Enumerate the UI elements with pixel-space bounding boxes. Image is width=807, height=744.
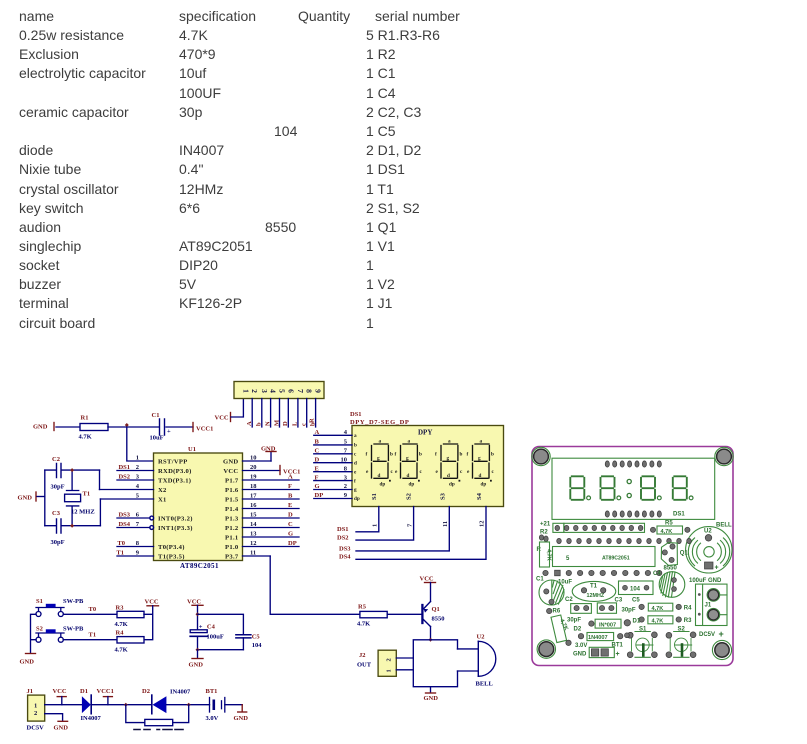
capacitor C2 bbox=[45, 456, 100, 491]
wire bell stubs bbox=[458, 649, 479, 671]
svg-text:C2: C2 bbox=[565, 597, 573, 603]
node labels A-DP (U1 right) bbox=[288, 474, 297, 548]
svg-text:2: 2 bbox=[344, 483, 347, 490]
svg-text:R3: R3 bbox=[116, 605, 125, 612]
svg-text:J1: J1 bbox=[27, 688, 34, 695]
svg-text:8550: 8550 bbox=[432, 615, 445, 622]
capacitor C5 104 pcb bbox=[619, 581, 654, 595]
resistor R3 bbox=[115, 605, 145, 629]
pad row below chip bbox=[555, 570, 662, 576]
svg-text:DS4: DS4 bbox=[118, 521, 130, 528]
svg-text:U1: U1 bbox=[188, 446, 196, 453]
svg-text:8: 8 bbox=[305, 389, 314, 393]
svg-text:P1.0: P1.0 bbox=[225, 544, 239, 551]
svg-text:S1: S1 bbox=[36, 598, 43, 605]
svg-text:dp: dp bbox=[354, 496, 360, 502]
svg-text:104: 104 bbox=[630, 587, 641, 593]
wire S1 to R3 bbox=[63, 613, 117, 615]
capacitor C4 bbox=[190, 624, 224, 650]
svg-text:C3: C3 bbox=[615, 598, 623, 604]
svg-text:2: 2 bbox=[34, 710, 37, 717]
svg-text:3.0V: 3.0V bbox=[575, 643, 587, 649]
svg-text:4: 4 bbox=[269, 389, 278, 393]
svg-text:DS1: DS1 bbox=[337, 526, 349, 533]
svg-text:IN4007: IN4007 bbox=[170, 689, 191, 696]
DPY left pin wires bbox=[314, 435, 352, 498]
svg-text:+: + bbox=[167, 428, 171, 435]
svg-text:D2: D2 bbox=[142, 688, 150, 695]
wire bell loop bbox=[413, 640, 457, 687]
resistor R5 bbox=[357, 604, 387, 628]
svg-text:OUT: OUT bbox=[357, 662, 372, 669]
node junction bypass right bbox=[187, 703, 191, 707]
svg-text:f: f bbox=[435, 452, 437, 458]
wire BT1 to GND bbox=[225, 704, 242, 706]
header silk + pads bbox=[553, 523, 645, 532]
svg-text:D1: D1 bbox=[633, 619, 641, 625]
svg-text:g: g bbox=[447, 455, 450, 461]
mounting hole TR bbox=[715, 447, 733, 465]
svg-text:7: 7 bbox=[296, 389, 305, 393]
svg-text:d: d bbox=[447, 473, 450, 479]
svg-text:VCC: VCC bbox=[53, 688, 67, 695]
wire D2 to BT1 bbox=[166, 704, 209, 706]
mounting hole TL bbox=[532, 447, 550, 465]
svg-text:GND: GND bbox=[223, 458, 239, 465]
svg-text:T0(P3.4): T0(P3.4) bbox=[158, 544, 185, 551]
svg-text:+: + bbox=[715, 565, 719, 572]
svg-text:D: D bbox=[315, 456, 320, 463]
DPY bottom pin numbers bbox=[372, 521, 486, 528]
singlechip AT89C2051 pcb bbox=[553, 547, 656, 567]
node junction RST bbox=[125, 423, 129, 427]
svg-text:12MHZ: 12MHZ bbox=[587, 593, 605, 599]
svg-text:GND: GND bbox=[424, 695, 439, 702]
parts list table bbox=[19, 8, 54, 24]
svg-text:T1: T1 bbox=[590, 584, 598, 590]
diode D2 pcb bbox=[574, 627, 633, 642]
svg-text:F: F bbox=[288, 483, 292, 490]
svg-text:T0: T0 bbox=[117, 540, 125, 547]
svg-text:S2: S2 bbox=[406, 493, 413, 500]
svg-text:6: 6 bbox=[286, 389, 295, 393]
capacitor C1 pcb bbox=[536, 577, 572, 606]
svg-text:10: 10 bbox=[341, 456, 348, 463]
colon bbox=[627, 479, 631, 483]
DPY left pin numbers bbox=[341, 429, 348, 499]
svg-text:A: A bbox=[315, 429, 320, 436]
svg-text:P1.2: P1.2 bbox=[225, 525, 239, 532]
svg-text:4.7K: 4.7K bbox=[115, 621, 128, 628]
display pad row top bbox=[605, 461, 661, 467]
svg-text:P1.7: P1.7 bbox=[225, 477, 239, 484]
transistor Q1 pcb bbox=[661, 543, 688, 566]
svg-text:GND: GND bbox=[189, 662, 204, 669]
svg-text:15: 15 bbox=[250, 512, 257, 519]
svg-text:DS1: DS1 bbox=[350, 411, 362, 418]
capacitor C5 bbox=[236, 633, 262, 649]
svg-text:5: 5 bbox=[566, 556, 570, 562]
svg-text:VCC: VCC bbox=[215, 415, 229, 422]
wire switches left to GND bbox=[31, 614, 37, 653]
svg-text:2: 2 bbox=[386, 658, 393, 661]
svg-text:DS4: DS4 bbox=[339, 554, 351, 561]
svg-text:13: 13 bbox=[250, 531, 257, 538]
svg-text:A: A bbox=[288, 474, 293, 481]
svg-text:dp: dp bbox=[481, 482, 487, 488]
svg-text:d: d bbox=[479, 473, 482, 479]
svg-text:Q1: Q1 bbox=[680, 551, 689, 557]
svg-text:f: f bbox=[354, 478, 356, 484]
U1 left pin numbers bbox=[136, 455, 140, 557]
svg-text:R4: R4 bbox=[116, 630, 125, 637]
node labels A-DP (DPY left) bbox=[315, 429, 324, 499]
diode D1 pcb bbox=[589, 619, 641, 629]
svg-text:G: G bbox=[288, 531, 293, 538]
pad row 2 bbox=[557, 538, 692, 543]
node junction C4 bottom bbox=[196, 648, 200, 652]
svg-text:b: b bbox=[419, 452, 422, 458]
svg-text:9: 9 bbox=[314, 389, 323, 393]
svg-text:M: M bbox=[273, 420, 280, 426]
svg-text:L: L bbox=[292, 421, 299, 426]
svg-text:P1.3: P1.3 bbox=[225, 515, 239, 522]
mounting hole BL bbox=[537, 640, 555, 658]
svg-text:R: R bbox=[309, 418, 316, 423]
label DC5V bbox=[699, 629, 724, 639]
svg-text:X1: X1 bbox=[158, 496, 167, 503]
svg-text:10uF: 10uF bbox=[150, 435, 164, 442]
diode D2 IN4007 bbox=[142, 688, 191, 714]
capacitor C3 bbox=[45, 510, 101, 546]
svg-text:DC5V: DC5V bbox=[699, 632, 715, 638]
wire S2 to R4 bbox=[63, 639, 117, 641]
svg-text:a: a bbox=[448, 439, 451, 445]
svg-text:X2: X2 bbox=[158, 487, 167, 494]
pcb seven-segment digits bbox=[570, 476, 693, 500]
node labels DS1-DS4 T0 T1 (U1 left) bbox=[116, 464, 130, 557]
svg-text:+: + bbox=[616, 651, 620, 658]
svg-text:C5: C5 bbox=[632, 598, 640, 604]
resistor R5 pcb bbox=[650, 521, 690, 536]
svg-text:C: C bbox=[315, 448, 320, 455]
ground (bell) bbox=[424, 687, 439, 702]
display window DS1 bbox=[552, 458, 715, 519]
svg-text:DS1: DS1 bbox=[673, 512, 685, 518]
svg-text:B: B bbox=[315, 439, 320, 446]
svg-text:U2: U2 bbox=[704, 529, 712, 535]
svg-text:a: a bbox=[408, 439, 411, 445]
svg-text:VCC: VCC bbox=[420, 576, 434, 583]
svg-text:1: 1 bbox=[386, 669, 393, 672]
svg-text:S3: S3 bbox=[439, 492, 446, 500]
svg-text:C: C bbox=[288, 521, 293, 528]
svg-text:DS3: DS3 bbox=[339, 546, 351, 553]
node junction bypass left bbox=[124, 703, 128, 707]
battery BT1 bbox=[206, 688, 225, 722]
svg-text:30pF: 30pF bbox=[51, 539, 65, 546]
svg-text:b: b bbox=[390, 452, 393, 458]
capacitor C4 pcb bbox=[653, 566, 685, 598]
svg-text:SW-PB: SW-PB bbox=[63, 626, 84, 633]
node junction crystal bottom bbox=[70, 524, 74, 528]
wire bypass loop bbox=[126, 705, 189, 723]
svg-text:S1: S1 bbox=[371, 493, 378, 500]
ground (J1) bbox=[54, 721, 69, 731]
key switch S2 pcb bbox=[666, 627, 696, 658]
svg-text:AT89C2051: AT89C2051 bbox=[602, 556, 630, 562]
svg-text:12 MHZ: 12 MHZ bbox=[71, 509, 95, 516]
wire U1 pin11 to R5 bbox=[270, 556, 360, 614]
svg-text:INT1(P3.3): INT1(P3.3) bbox=[158, 525, 193, 532]
DPY bottom pin wires bbox=[356, 507, 486, 560]
svg-text:S4: S4 bbox=[476, 492, 483, 500]
svg-text:DP: DP bbox=[315, 492, 324, 499]
diode D1 IN4007 bbox=[80, 688, 101, 722]
node VCC (J1) bbox=[53, 688, 67, 705]
svg-text:+: + bbox=[199, 624, 203, 631]
battery BT1 pcb bbox=[573, 643, 623, 659]
svg-text:F: F bbox=[315, 474, 319, 481]
svg-text:C1: C1 bbox=[536, 577, 544, 583]
PCB board outline bbox=[532, 447, 733, 666]
buzzer U2 pcb bbox=[686, 523, 732, 574]
key switch S1 pcb bbox=[625, 627, 658, 658]
svg-text:AT89C2051: AT89C2051 bbox=[180, 562, 219, 570]
svg-text:A: A bbox=[246, 421, 253, 426]
svg-text:GND: GND bbox=[20, 659, 35, 666]
svg-text:T1: T1 bbox=[89, 632, 97, 639]
terminal J1 pcb bbox=[689, 578, 727, 626]
svg-text:B: B bbox=[288, 493, 293, 500]
wire R1 to C1 bbox=[108, 426, 159, 428]
node VCC1 (after D1) bbox=[97, 688, 114, 705]
svg-text:1: 1 bbox=[34, 703, 37, 710]
ground (BT1) bbox=[234, 705, 249, 722]
transistor Q1 8550 bbox=[422, 602, 444, 627]
svg-text:RXD(P3.0): RXD(P3.0) bbox=[158, 468, 192, 475]
svg-text:DPY_D7-SEG_DP: DPY_D7-SEG_DP bbox=[350, 419, 409, 426]
op-amp U1 AT89C2051 bbox=[154, 446, 243, 570]
svg-text:INT0(P3.2): INT0(P3.2) bbox=[158, 515, 193, 522]
svg-text:4,7K: 4,7K bbox=[546, 549, 552, 561]
node junction bell top bbox=[429, 638, 433, 642]
svg-text:R3: R3 bbox=[684, 618, 692, 624]
svg-text:T1: T1 bbox=[83, 491, 91, 498]
wire D1 to D2 bbox=[91, 704, 152, 706]
svg-text:GND: GND bbox=[54, 725, 69, 732]
svg-text:R5: R5 bbox=[358, 604, 367, 611]
svg-text:f: f bbox=[467, 452, 469, 458]
svg-text:d: d bbox=[378, 473, 381, 479]
svg-text:+: + bbox=[719, 629, 724, 639]
svg-text:D2: D2 bbox=[574, 627, 582, 633]
svg-text:d: d bbox=[407, 473, 410, 479]
U1 right pin wires bbox=[243, 461, 300, 556]
svg-text:2: 2 bbox=[136, 464, 139, 471]
pin bubbles INT0 INT1 bbox=[150, 516, 154, 520]
node segment letters under header bbox=[246, 418, 316, 426]
svg-text:U2: U2 bbox=[477, 633, 485, 640]
resistor R1 bbox=[79, 415, 109, 441]
label +Z1 / R2 bbox=[540, 522, 551, 542]
svg-text:dp: dp bbox=[380, 482, 386, 488]
wire J1 pin2 to GND bbox=[45, 714, 63, 721]
svg-text:GND: GND bbox=[18, 495, 33, 502]
buzzer U2 BELL bbox=[476, 633, 496, 687]
wire header pin2-9 stubs bbox=[252, 399, 315, 428]
U1 right pin numbers bbox=[250, 455, 257, 557]
connector J1 DC5V bbox=[27, 688, 45, 732]
svg-text:S2: S2 bbox=[36, 626, 43, 633]
resistor R1 pcb bbox=[537, 535, 552, 576]
node VCC1 (U1 pin20) bbox=[280, 466, 300, 476]
svg-text:a: a bbox=[379, 439, 382, 445]
svg-text:IN*007: IN*007 bbox=[599, 623, 616, 629]
svg-text:12: 12 bbox=[250, 540, 257, 547]
svg-text:17: 17 bbox=[250, 493, 257, 500]
switch S2 bbox=[36, 626, 84, 643]
svg-text:E: E bbox=[288, 502, 292, 509]
svg-text:N: N bbox=[264, 421, 271, 426]
svg-text:11: 11 bbox=[442, 521, 449, 527]
svg-text:g: g bbox=[377, 455, 380, 461]
svg-text:5: 5 bbox=[278, 389, 287, 393]
resistor network R2 header bbox=[234, 382, 324, 399]
svg-text:J1: J1 bbox=[705, 603, 712, 609]
node GND (U1 pin10) bbox=[261, 446, 276, 462]
svg-text:C4: C4 bbox=[207, 624, 216, 631]
svg-text:30pF: 30pF bbox=[567, 618, 581, 624]
svg-text:18: 18 bbox=[250, 483, 257, 490]
svg-text:30pF: 30pF bbox=[51, 484, 65, 491]
svg-text:VCC: VCC bbox=[187, 598, 201, 605]
wire X1 branch bbox=[99, 499, 101, 526]
svg-text:VCC: VCC bbox=[223, 468, 238, 475]
svg-text:DPY: DPY bbox=[418, 429, 432, 437]
switch S1 bbox=[36, 598, 84, 617]
capacitor C3 pcb bbox=[597, 598, 636, 614]
node VCC1 port bbox=[193, 423, 213, 433]
resistor R6 pcb bbox=[547, 608, 572, 645]
svg-text:T1(P3.5): T1(P3.5) bbox=[158, 553, 185, 560]
svg-text:b: b bbox=[256, 422, 263, 426]
svg-text:1: 1 bbox=[136, 455, 139, 462]
svg-text:P1.4: P1.4 bbox=[225, 506, 239, 513]
svg-text:DS1: DS1 bbox=[118, 464, 130, 471]
svg-text:BT1: BT1 bbox=[206, 688, 218, 695]
svg-text:g: g bbox=[406, 455, 409, 461]
svg-text:T0: T0 bbox=[89, 606, 97, 613]
svg-text:C3: C3 bbox=[52, 510, 61, 517]
svg-text:DS3: DS3 bbox=[118, 512, 130, 519]
crystal T1 bbox=[65, 470, 95, 526]
svg-text:1: 1 bbox=[372, 524, 379, 527]
node GND (crystal) bbox=[18, 492, 45, 502]
resistor R4 bbox=[115, 630, 145, 654]
node VCC (C4/C5) bbox=[187, 598, 203, 605]
svg-text:IN4007: IN4007 bbox=[81, 715, 102, 722]
svg-text:g: g bbox=[354, 487, 357, 493]
svg-text:C5: C5 bbox=[252, 633, 261, 640]
svg-text:19: 19 bbox=[250, 474, 257, 481]
svg-text:dp: dp bbox=[409, 482, 415, 488]
svg-text:VCC1: VCC1 bbox=[97, 688, 114, 695]
svg-text:Q1: Q1 bbox=[432, 606, 440, 613]
svg-text:+21: +21 bbox=[540, 522, 551, 528]
node junction C4 top bbox=[196, 612, 200, 616]
svg-text:100uF GND: 100uF GND bbox=[689, 578, 722, 584]
wire C1 to VCC1 port bbox=[166, 426, 193, 428]
mounting hole BR bbox=[712, 640, 731, 659]
display pad row bottom bbox=[605, 511, 661, 517]
svg-text:VCC1: VCC1 bbox=[196, 426, 213, 433]
svg-text:C1: C1 bbox=[152, 412, 160, 419]
svg-text:f: f bbox=[395, 452, 397, 458]
resistor bypass bbox=[145, 719, 173, 725]
wire junction down to U1 pin1 bbox=[127, 427, 154, 461]
svg-text:d: d bbox=[354, 460, 357, 466]
svg-text:f: f bbox=[366, 452, 368, 458]
svg-text:4.7K: 4.7K bbox=[79, 434, 92, 441]
svg-text:1: 1 bbox=[241, 389, 250, 393]
svg-text:DS2: DS2 bbox=[118, 474, 130, 481]
resistor R3 pcb bbox=[639, 616, 692, 625]
wire C4/C5 loop bottom bbox=[198, 649, 244, 651]
svg-text:a: a bbox=[354, 433, 357, 439]
svg-text:b: b bbox=[460, 452, 463, 458]
svg-text:16: 16 bbox=[250, 502, 257, 509]
svg-text:TXD(P3.1): TXD(P3.1) bbox=[158, 477, 191, 484]
label cut-off under bypass resistor bbox=[134, 729, 183, 731]
resistor R4 pcb bbox=[639, 603, 692, 612]
seven-segment digits in DS1 bbox=[366, 439, 495, 488]
svg-text:DC5V: DC5V bbox=[27, 725, 45, 732]
svg-text:a: a bbox=[480, 439, 483, 445]
svg-text:c: c bbox=[301, 423, 308, 426]
svg-text:2: 2 bbox=[250, 389, 259, 393]
svg-text:R6: R6 bbox=[553, 609, 561, 615]
wire C4/C5 loop top bbox=[198, 614, 244, 634]
svg-text:100uF: 100uF bbox=[207, 633, 224, 640]
connector J2 OUT bbox=[357, 650, 413, 676]
node VCC (Q1 emitter) bbox=[420, 576, 436, 602]
svg-text:1N4007: 1N4007 bbox=[588, 635, 608, 641]
svg-text:E: E bbox=[315, 465, 319, 472]
svg-text:b: b bbox=[354, 443, 357, 449]
node VCC (switch pullups) bbox=[145, 599, 159, 606]
svg-text:30pF: 30pF bbox=[622, 608, 636, 614]
svg-text:SW-PB: SW-PB bbox=[63, 598, 84, 605]
wire J1 pin1 bbox=[45, 704, 82, 706]
wire VCC to header pin1 bbox=[231, 399, 243, 418]
svg-text:BELL: BELL bbox=[476, 680, 494, 687]
node GND (left of R1) bbox=[33, 423, 54, 431]
svg-text:T1: T1 bbox=[116, 550, 124, 557]
svg-text:g: g bbox=[478, 455, 481, 461]
svg-text:DP: DP bbox=[288, 540, 297, 547]
svg-text:P1.6: P1.6 bbox=[225, 487, 239, 494]
svg-text:R4: R4 bbox=[684, 606, 692, 612]
wire VCC down bbox=[197, 605, 199, 629]
svg-text:P1.5: P1.5 bbox=[225, 496, 239, 503]
svg-text:D1: D1 bbox=[80, 688, 88, 695]
svg-text:GND: GND bbox=[234, 715, 249, 722]
wire R3/R4 to VCC bbox=[144, 606, 153, 640]
wire X2 branch bbox=[99, 470, 101, 489]
wire R5 to Q1 base bbox=[387, 613, 421, 615]
wire GND to R1 bbox=[56, 426, 80, 428]
